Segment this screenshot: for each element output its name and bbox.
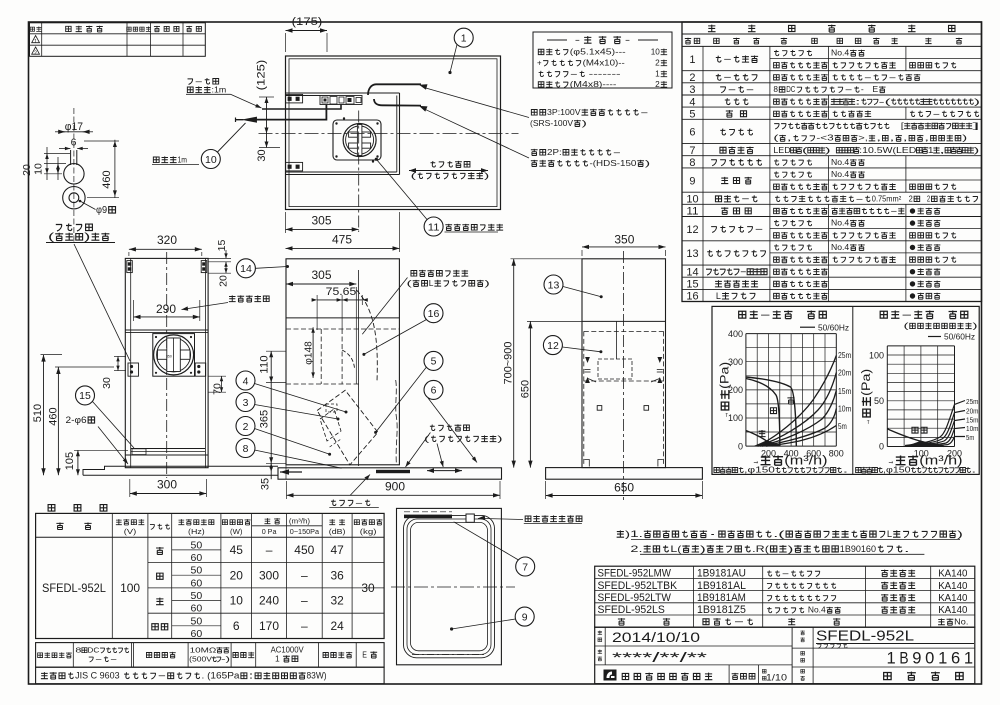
svg-text:2.: 2. [630,544,642,554]
svg-text:SFEDL-952LS: SFEDL-952LS [598,604,665,616]
svg-text:7: 7 [689,145,695,157]
svg-text:No.4: No.4 [808,606,826,615]
svg-text:450: 450 [294,543,314,557]
parts row 6 スイッチ [682,143,982,145]
svg-text:(Pa): (Pa) [720,362,732,389]
svg-text:1: 1 [275,654,280,664]
label cable length 1m with balloon 10 [153,155,187,165]
dimension (175) [292,16,323,28]
svg-text:L: L [887,529,892,539]
svg-text:-: - [723,54,732,64]
svg-text:E: E [362,650,367,660]
svg-text:16: 16 [428,308,440,320]
svg-text:3: 3 [689,84,695,96]
svg-text:170: 170 [259,619,279,633]
bottom view outer rect [397,508,502,664]
svg-text:-: - [613,147,622,157]
balloon 2 [236,417,255,436]
svg-text:75.65: 75.65 [326,286,357,298]
svg-text:460: 460 [47,407,59,425]
svg-text:.: . [971,466,977,475]
svg-text:8: 8 [243,443,249,455]
left arrow on base [280,469,289,475]
front view duct centerline [358,270,360,466]
svg-text:(M4x8)----: (M4x8)---- [570,80,617,89]
parts row 11 排 気 口 [682,216,982,218]
svg-text:.: . [904,544,910,554]
dimension 110 [259,355,271,373]
svg-text:0~150Pa: 0~150Pa [290,527,320,536]
svg-text:15: 15 [79,390,91,402]
svg-text:510: 510 [32,404,44,422]
parts row 1 フード本体 [682,70,982,72]
svg-text:240: 240 [259,594,279,608]
svg-text:15: 15 [686,279,698,291]
top view mounting bracket lower-left [286,162,303,171]
balloon 5 [424,351,443,370]
model name and voltage [42,583,106,595]
performance graphs box [712,306,979,474]
signal receiver square [466,514,474,522]
svg-text:,φ150: ,φ150 [744,466,776,475]
right graph grid [886,346,888,447]
dimension 300 [157,478,177,492]
svg-text:(Hz): (Hz) [188,527,205,536]
svg-text:,φ150: ,φ150 [883,466,911,475]
svg-text:(V): (V) [124,527,137,536]
svg-text:-: - [625,35,630,46]
balloon 1 [454,28,473,47]
anchor marks right [657,357,662,363]
sankakuho cell [728,665,730,684]
model name value [816,628,914,645]
svg-text:.: . [842,466,848,475]
svg-text:20: 20 [230,568,244,582]
side view corner dashes [588,379,596,383]
svg-text:10: 10 [651,48,661,57]
svg-text:No.4: No.4 [831,49,850,58]
svg-text:-): -) [221,655,231,664]
svg-text:—: — [301,594,308,608]
centerline [73,108,75,242]
fan curve joushi [887,429,944,447]
balloon 3 [236,393,255,412]
svg-text:32: 32 [331,594,345,608]
svg-text:(500V: (500V [189,655,212,664]
svg-text:20m: 20m [838,369,852,378]
fan curve weak [746,431,773,447]
svg-text:100: 100 [120,581,140,595]
parts row 7 照明装置 [682,155,982,157]
balloon 15 [76,386,95,405]
svg-text:(SRS-100V: (SRS-100V [530,118,573,128]
svg-text:460: 460 [101,170,113,188]
label exhaust connector 2P [531,147,622,157]
svg-text:305: 305 [312,214,332,228]
dimension 305 front view [312,268,332,282]
svg-text:DC: DC [786,85,795,94]
leader to exhaust connector label [424,109,529,158]
right graph y labels [869,350,884,360]
duct resistance curves left graph [757,356,836,447]
dimension 460 left [47,407,59,425]
svg-text::1m: :1m [212,85,227,95]
top view horizontal centerline [259,133,519,135]
svg-text:45: 45 [230,543,244,557]
svg-text:No.: No. [954,617,968,627]
svg-text:60: 60 [191,603,203,615]
svg-text:5m: 5m [838,422,847,431]
svg-text:6: 6 [951,650,960,668]
svg-text:2: 2 [243,421,249,433]
label supply connector 3P [531,107,649,117]
svg-text:100: 100 [869,350,884,360]
dimension 6 [71,137,77,149]
svg-text:-: - [741,194,750,204]
dense crossing fill near origin [754,441,781,447]
drawing number label [801,651,805,655]
rear duct dashed horizontal [286,383,359,385]
svg-text:): ) [485,278,491,288]
svg-text:1B90160: 1B90160 [840,544,876,554]
drawing name value [884,672,963,681]
side view center dashed box [598,359,632,379]
wire: exhaust connector lead (upper) [368,84,421,95]
note 1 [617,529,963,539]
svg-text:→: → [720,412,732,418]
svg-text:700~900: 700~900 [503,342,515,385]
svg-text:): ) [825,146,831,155]
svg-text:10MΩ: 10MΩ [190,646,217,655]
svg-text:): ) [484,171,490,181]
left graph grid [745,334,747,447]
right graph note [856,466,977,475]
label 2-phi6 holes [66,415,95,426]
svg-text:-: - [760,309,773,321]
svg-text:10: 10 [686,194,698,206]
svg-text:SFEDL-952LMW: SFEDL-952LMW [598,568,672,580]
handle squares [597,406,602,411]
svg-text:): ) [497,434,503,444]
dimension 350 [614,233,634,247]
label line direction (top view) [431,161,470,168]
parts row 10 電源コード [682,203,982,205]
L-duct dashed bend inner [342,350,354,368]
svg-text:SFEDL-952L: SFEDL-952L [816,628,914,645]
base plate left view with wall step [83,466,278,475]
svg-text:-: - [782,569,791,578]
svg-text:-: - [932,109,941,118]
svg-text:φ17: φ17 [65,121,83,133]
svg-text:1: 1 [34,39,37,45]
notch row 強 [148,562,384,564]
anchor marks left [585,357,590,363]
svg-text:B: B [899,650,908,668]
duct flange plate (top view) [333,120,381,160]
svg-text:(Pa): (Pa) [861,369,873,396]
top view hood body outline [286,92,400,94]
svg-text:): ) [582,118,588,128]
slide duct bottom line front view [286,317,399,319]
svg-text:1: 1 [461,33,467,45]
svg-text:-: - [740,267,747,277]
dimension phi17 [65,121,83,133]
svg-text:2P:: 2P: [547,147,562,157]
balloon 13 [544,275,563,294]
svg-text:φ9: φ9 [96,205,108,216]
svg-text:14: 14 [240,263,252,275]
sakusei label [598,631,602,635]
main base plate [278,468,502,479]
svg-text:-: - [901,309,914,321]
svg-text:(dB): (dB) [329,527,346,536]
svg-text:20: 20 [217,275,229,287]
svg-text:L: L [429,278,434,288]
parts row 3 モーター [682,94,982,96]
svg-text:36: 36 [331,568,345,582]
svg-text::: : [248,671,254,681]
svg-text:.(: .( [773,529,786,539]
svg-text:0.75mm² 2: 0.75mm² 2 [872,194,913,203]
side view duct cover dashed top [584,330,664,332]
dimension 15 right of duct cover [216,239,228,251]
balloon 16 [424,304,443,323]
model row SFEDL-952LTW [598,592,672,604]
koushin label [598,650,602,654]
svg-text:-: - [890,207,898,216]
svg-text:): ) [700,544,706,554]
signal receiver bar [404,515,452,519]
svg-text:0: 0 [925,650,934,668]
svg-text:-<3: -<3 [816,134,834,143]
left graph legend [800,326,815,328]
dimension 290 [156,302,176,316]
svg-text:SFEDL-952L: SFEDL-952L [42,583,106,595]
svg-text:400: 400 [728,329,743,339]
side mount bracket right [195,363,206,376]
svg-text:9: 9 [689,175,695,187]
line direction label bottom [430,424,469,431]
svg-text:15m: 15m [838,387,852,396]
main front view outline [286,259,399,465]
slanted inner duct dashed [320,409,341,441]
daruma hole title [56,224,93,232]
dimension 650 bottom [614,481,634,495]
big circle of daruma hole [64,164,84,184]
svg-text:-: - [723,72,732,82]
svg-text:50: 50 [874,396,884,406]
left graph x labels [761,449,776,459]
svg-text:(m³/h): (m³/h) [784,454,827,468]
dimension (125) [256,60,268,91]
svg-text:16: 16 [686,291,698,303]
svg-text:1: 1 [964,650,973,668]
svg-text:): ) [962,134,968,143]
svg-text:SFEDL-952LTBK: SFEDL-952LTBK [598,580,678,592]
svg-text::10.5W(LED: :10.5W(LED [859,146,916,155]
svg-text:105: 105 [64,452,76,470]
slide duct joint line [125,329,208,331]
svg-text:(125): (125) [256,60,268,91]
leader from detail to duct cover bracket [74,244,130,361]
svg-text:****/**/**: ****/**/** [612,649,708,665]
svg-text:350: 350 [614,233,634,247]
wire: supply connector lead (lower) [374,99,421,106]
dimension 320 [157,233,177,247]
left graph x axis label [752,454,827,468]
svg-text:6: 6 [233,619,240,633]
characteristics table frame [36,513,385,638]
model row SFEDL-952LMW [598,568,672,580]
svg-text:No.4: No.4 [831,243,850,252]
svg-text:(175): (175) [292,16,323,28]
svg-text:11: 11 [428,221,440,233]
svg-text:>,: >, [858,134,868,143]
curve labels strong mid weak [787,397,794,404]
label body mounting hole [229,295,269,302]
model table footer labels [618,618,670,625]
dimension 35 extension [285,463,287,479]
bottom view rounded panel lines [404,515,495,657]
svg-text:—: — [266,543,273,557]
svg-text:(m³/h): (m³/h) [919,454,962,468]
svg-text:30: 30 [361,581,375,595]
parts row 16 L形ダクト [682,301,982,303]
dimension 30 top view [256,149,268,161]
duct dashed verticals front view [320,329,322,384]
svg-text:-: - [888,73,897,82]
right graph y axis label [861,369,873,426]
svg-text:11: 11 [686,206,698,218]
svg-text:47: 47 [331,543,345,557]
svg-text:5: 5 [689,109,695,121]
bottom view dashed accents [412,654,487,656]
svg-text:-: - [746,84,755,94]
svg-text:475: 475 [332,233,352,247]
svg-text:3: 3 [243,397,249,409]
svg-text:-: - [755,224,764,234]
svg-text:(φ5.1x45)---: (φ5.1x45)--- [570,48,626,57]
slot walls [70,150,72,165]
svg-text:1B9181AU: 1B9181AU [697,568,746,580]
svg-text:-: - [575,35,580,46]
svg-text:·: · [708,529,717,539]
svg-text:(: ( [773,134,779,143]
svg-text:50/60Hz: 50/60Hz [818,324,849,333]
revision table [30,23,206,57]
duct cover top corner bracket left [127,261,133,273]
svg-text:,: , [924,134,929,143]
model row SFEDL-952LTBK [598,580,678,592]
svg-text:): ) [84,232,90,243]
duct cover top dashed front view [286,328,399,330]
dimension 365 [259,410,271,428]
balloon 7 [516,557,535,576]
phi148 dimension [302,341,314,365]
top view outer panel (double border) [286,56,501,210]
revision triangle 2 [32,47,40,54]
parts row 2 ケーシング [682,82,982,84]
resistance labels right graph [966,397,979,406]
svg-text:24: 24 [331,619,345,633]
dimension 105 [64,452,76,470]
duct assembly shutter front [158,350,191,359]
svg-text:110: 110 [259,355,271,373]
dimension 700-900 [503,342,515,385]
svg-text:2: 2 [921,194,930,203]
left graph y axis label [720,362,732,419]
svg-text:2014/10/10: 2014/10/10 [612,629,700,645]
svg-text:. (165Pa: . (165Pa [202,671,240,681]
fan curve mid [746,379,780,447]
side view slide duct bottom [582,320,666,322]
svg-text:1B9181Z5: 1B9181Z5 [697,604,746,616]
svg-text:83W): 83W) [307,671,327,681]
left graph title [739,309,827,321]
svg-text:)1.: )1. [625,529,643,539]
svg-text:1: 1 [887,650,896,668]
accessory item 4 [538,80,616,89]
svg-text:10m: 10m [966,424,979,433]
svg-text:-------: ------- [589,70,621,79]
title block frame [595,627,975,684]
svg-text:KA140: KA140 [938,568,967,580]
svg-text:-: - [570,70,579,79]
svg-text:10m: 10m [838,405,852,414]
balloon 10 [201,150,220,169]
svg-text:1B9181AM: 1B9181AM [697,592,746,604]
side view duct cover dashed bottom [584,380,664,382]
dimension 460 detail [101,170,113,188]
svg-text:-: - [728,84,737,94]
duct cover top corner bracket right [201,261,207,273]
svg-text:6: 6 [689,127,695,139]
notch row 中 [148,587,384,589]
svg-text:(: ( [904,322,910,331]
svg-text:,: , [876,134,881,143]
drawing name label [801,669,805,673]
label earth wire [188,76,219,86]
svg-text:(M4x10)--: (M4x10)-- [583,59,625,68]
svg-text:10: 10 [205,154,217,166]
parts row 14 ダクトカバー吊金具 [682,276,982,278]
dimension 305 top view [312,214,332,228]
svg-text:.R(: .R( [752,544,770,554]
svg-text:No.4: No.4 [831,170,850,179]
svg-text:DC: DC [87,646,100,655]
balloon 11 [424,217,443,236]
svg-text:LED: LED [773,146,790,155]
svg-text:1: 1 [928,146,934,155]
parts row 5 煙 道 [682,118,982,120]
svg-text:(kg): (kg) [360,527,377,536]
duct circle (top view) [343,124,376,157]
right graph title [880,309,968,321]
svg-text:- E: - E [861,85,879,94]
svg-text:2: 2 [655,59,660,68]
dimension 30 left view [101,377,113,389]
svg-text:1: 1 [689,54,695,66]
svg-text:0 Pa: 0 Pa [262,527,278,536]
accessory item 2 [537,59,625,68]
characteristics table title [48,505,107,512]
svg-text:0: 0 [879,442,884,452]
svg-text:50: 50 [191,590,203,602]
svg-text:290: 290 [156,302,176,316]
duct cover vertical centerline [166,252,168,478]
motor spec table [36,643,385,668]
note 2 [630,544,909,554]
